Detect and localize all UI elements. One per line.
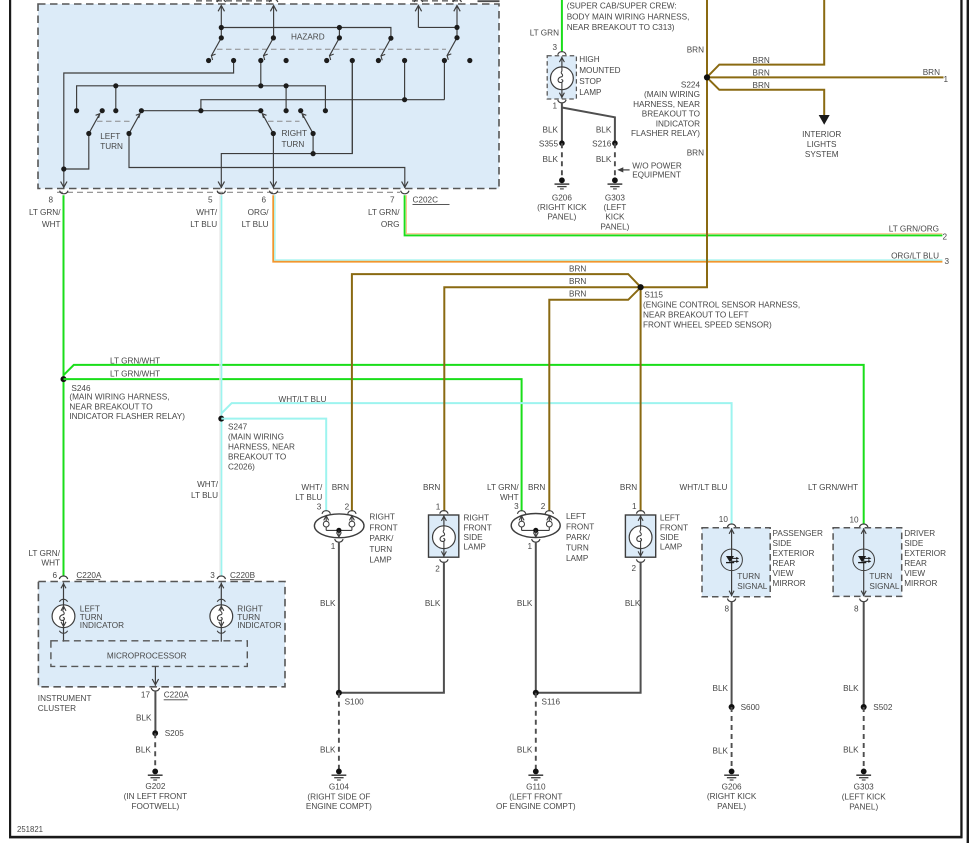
wire: contact 404.6 drop	[404, 61, 406, 100]
svg-text:S116: S116	[542, 697, 561, 706]
svg-text:STOP: STOP	[579, 77, 602, 86]
wire BLK dashed S100 to G104	[338, 693, 340, 770]
wire BLK dashed S205 to G202	[154, 733, 156, 770]
svg-text:BRN: BRN	[687, 149, 704, 158]
svg-text:TURN: TURN	[869, 572, 892, 581]
svg-text:6: 6	[261, 196, 266, 205]
svg-text:BLK: BLK	[596, 125, 612, 134]
switch top pin arrows	[218, 6, 224, 12]
wire LT GRN/WHT upper branch to driver mirror	[64, 365, 864, 524]
svg-text:LT GRN/: LT GRN/	[487, 483, 519, 492]
svg-text:C220A: C220A	[76, 571, 102, 580]
svg-text:S224: S224	[681, 80, 701, 89]
wire: pivot 313.1 to bus y=153.6	[312, 134, 314, 154]
svg-text:WHT/: WHT/	[301, 483, 323, 492]
wire WHT/LT BLU branch to right front park lamp	[221, 419, 326, 512]
splice S224	[704, 74, 710, 80]
svg-text:WHT/: WHT/	[197, 480, 219, 489]
wire BRN S224 main vertical and run to S115	[641, 0, 707, 287]
wire BRN from top into S224	[707, 0, 824, 77]
wire: top pin drops	[220, 6, 222, 38]
svg-text:LT GRN: LT GRN	[530, 29, 559, 38]
svg-text:NEAR BREAKOUT TO: NEAR BREAKOUT TO	[69, 402, 152, 411]
svg-text:PASSENGER: PASSENGER	[773, 529, 823, 538]
ground G110 (left front of engine compt)	[528, 769, 543, 781]
svg-text:NEAR BREAKOUT TO C313): NEAR BREAKOUT TO C313)	[567, 23, 675, 32]
svg-text:FRONT WHEEL SPEED SENSOR): FRONT WHEEL SPEED SENSOR)	[643, 321, 772, 330]
svg-text:2: 2	[541, 502, 546, 511]
svg-text:ORG/LT BLU: ORG/LT BLU	[891, 251, 939, 260]
svg-text:BLK: BLK	[136, 713, 152, 722]
svg-text:INDICATOR: INDICATOR	[80, 621, 124, 630]
svg-text:BRN: BRN	[753, 81, 770, 90]
cluster pin 17 C220A	[154, 666, 156, 685]
svg-text:6: 6	[52, 571, 57, 580]
left turn arm 2	[129, 114, 140, 134]
svg-text:LEFT: LEFT	[660, 514, 680, 523]
svg-text:S216: S216	[592, 139, 612, 148]
svg-text:1: 1	[331, 542, 336, 551]
svg-text:LEFT: LEFT	[100, 132, 120, 141]
wire WHT/LT BLU branch to passenger mirror	[221, 403, 731, 524]
svg-text:BRN: BRN	[332, 483, 349, 492]
svg-text:G202: G202	[145, 782, 165, 791]
svg-text:S502: S502	[873, 703, 893, 712]
wire LT GRN/WHT lower branch to left front park lamp	[64, 379, 522, 511]
svg-text:BLK: BLK	[543, 155, 559, 164]
svg-text:BRN: BRN	[423, 483, 440, 492]
left turn arm 1	[89, 114, 100, 134]
splice S116	[533, 690, 539, 696]
wire: pivot 273.4 to pin6	[272, 134, 274, 189]
svg-text:ORG: ORG	[381, 220, 400, 229]
svg-text:FRONT: FRONT	[660, 523, 688, 532]
svg-text:REAR: REAR	[773, 559, 796, 568]
svg-text:LAMP: LAMP	[464, 543, 487, 552]
svg-text:BLK: BLK	[713, 684, 729, 693]
left front side lamp	[625, 502, 688, 573]
ground G206 (right kick panel)	[555, 177, 570, 189]
svg-text:(IN LEFT FRONT: (IN LEFT FRONT	[124, 792, 188, 801]
wire: pivot 88.8 to pin8 node	[64, 134, 89, 170]
wire: bus y=110.7	[141, 110, 260, 112]
ground G303 (left kick panel) lower	[856, 769, 871, 781]
wire BRN S115 middle branch to right front side lamp	[444, 287, 640, 511]
svg-text:S600: S600	[741, 703, 761, 712]
svg-text:G104: G104	[329, 782, 349, 791]
connector C202C face line	[57, 191, 400, 193]
svg-text:RIGHT: RIGHT	[464, 514, 489, 523]
svg-text:NEAR BREAKOUT TO LEFT: NEAR BREAKOUT TO LEFT	[643, 311, 749, 320]
svg-text:(LEFT FRONT: (LEFT FRONT	[509, 792, 562, 801]
svg-text:EQUIPMENT: EQUIPMENT	[632, 171, 681, 180]
wire BRN S115 down to left front side lamp	[640, 287, 642, 511]
wire BLK right side lamp to S100	[339, 562, 444, 693]
wire LT GRN/ORG pin7	[405, 195, 943, 235]
svg-text:1: 1	[632, 502, 637, 511]
wire BRN S115 top branch to right front park lamp	[352, 274, 641, 511]
svg-text:1: 1	[436, 502, 441, 511]
svg-text:FRONT: FRONT	[369, 523, 397, 532]
svg-text:BLK: BLK	[517, 746, 533, 755]
svg-text:G303: G303	[854, 783, 874, 792]
svg-text:MIRROR: MIRROR	[773, 579, 806, 588]
splice S355	[559, 140, 565, 146]
svg-text:EXTERIOR: EXTERIOR	[773, 549, 815, 558]
driver side exterior rear view mirror	[808, 483, 946, 614]
svg-text:LAMP: LAMP	[579, 88, 602, 97]
wire BLK right park lamp to S100	[338, 542, 340, 693]
svg-text:(MAIN WIRING: (MAIN WIRING	[228, 432, 284, 441]
splice S246	[61, 376, 67, 382]
svg-text:PANEL): PANEL)	[547, 213, 576, 222]
microprocessor box	[51, 641, 247, 667]
right turn arm 1	[262, 114, 273, 134]
svg-text:HARNESS, NEAR: HARNESS, NEAR	[633, 100, 700, 109]
svg-text:S246: S246	[71, 384, 91, 393]
wire: contact 233.6 riser to pin8 drop	[64, 61, 234, 189]
wire: contact 444.4 drop to bus	[443, 61, 445, 100]
svg-text:BLK: BLK	[543, 125, 559, 134]
multifunction switch box	[38, 4, 499, 189]
splice S205	[152, 730, 158, 736]
right front side lamp	[429, 502, 492, 573]
svg-text:OF ENGINE COMPT): OF ENGINE COMPT)	[496, 802, 576, 811]
svg-text:BLK: BLK	[713, 746, 729, 755]
svg-text:W/O POWER: W/O POWER	[632, 162, 682, 171]
svg-text:2: 2	[345, 502, 350, 511]
svg-text:WHT/LT BLU: WHT/LT BLU	[279, 395, 327, 404]
wire BRN S224 to interior lights system	[707, 78, 824, 116]
svg-text:BODY MAIN WIRING HARNESS,: BODY MAIN WIRING HARNESS,	[567, 12, 690, 21]
svg-text:LT BLU: LT BLU	[295, 493, 322, 502]
svg-text:G110: G110	[526, 782, 546, 791]
svg-text:LAMP: LAMP	[566, 554, 589, 563]
svg-text:3: 3	[210, 571, 215, 580]
svg-text:C202C: C202C	[413, 196, 439, 205]
svg-text:CLUSTER: CLUSTER	[38, 704, 76, 713]
svg-text:S115: S115	[644, 291, 663, 300]
svg-text:LT GRN/WHT: LT GRN/WHT	[110, 357, 160, 366]
ground G202 (in left front footwell)	[148, 769, 163, 781]
wire BLK stop lamp to S355	[561, 102, 563, 143]
svg-text:RIGHT: RIGHT	[282, 129, 307, 138]
svg-text:LT BLU: LT BLU	[242, 220, 269, 229]
instrument cluster box	[38, 582, 285, 687]
wire BLK dashed S502 to G303	[863, 707, 865, 770]
W/O POWER EQUIPMENT callout	[617, 162, 682, 180]
svg-text:BRN: BRN	[687, 45, 704, 54]
high mounted stop lamp box	[547, 56, 576, 99]
svg-text:LT GRN/: LT GRN/	[29, 208, 61, 217]
svg-text:TURN: TURN	[369, 545, 392, 554]
svg-text:(RIGHT KICK: (RIGHT KICK	[537, 203, 587, 212]
wire: contact 260.8 drop	[260, 61, 262, 86]
wire WHT/LT BLU pin5 vertical	[219, 195, 221, 576]
cluster pin 6 C220A	[59, 576, 67, 579]
svg-text:BRN: BRN	[620, 483, 637, 492]
left turn indicator lamp	[52, 583, 124, 642]
wire BLK dashed S600 to G206	[731, 707, 733, 770]
svg-text:LT GRN/: LT GRN/	[28, 549, 60, 558]
splice S502	[861, 704, 867, 710]
svg-text:3: 3	[317, 502, 322, 511]
wire: bus y=153.6 pin5	[221, 61, 352, 189]
svg-text:BRN: BRN	[569, 277, 586, 286]
passenger side exterior rear view mirror	[679, 483, 822, 614]
svg-text:S100: S100	[345, 697, 365, 706]
svg-text:G206: G206	[722, 782, 742, 791]
svg-text:LT BLU: LT BLU	[191, 491, 218, 500]
splice S115	[638, 284, 644, 290]
pin 1 stop lamp	[558, 100, 566, 103]
svg-text:C220A: C220A	[164, 691, 190, 700]
svg-text:BRN: BRN	[569, 290, 586, 299]
connector C202C pin bumps	[60, 191, 68, 194]
svg-text:7: 7	[390, 196, 395, 205]
svg-text:LAMP: LAMP	[369, 556, 392, 565]
svg-text:WHT/LT BLU: WHT/LT BLU	[679, 483, 727, 492]
svg-text:TURN: TURN	[566, 543, 589, 552]
svg-text:INDICATOR: INDICATOR	[237, 621, 281, 630]
ground G206 (right kick panel) lower	[724, 769, 739, 781]
svg-text:MIRROR: MIRROR	[904, 579, 937, 588]
svg-text:8: 8	[48, 196, 53, 205]
svg-text:EXTERIOR: EXTERIOR	[904, 549, 946, 558]
svg-text:10: 10	[719, 515, 729, 524]
svg-text:LT GRN/: LT GRN/	[368, 208, 400, 217]
svg-text:SIDE: SIDE	[904, 539, 924, 548]
wire BLK cluster to S205	[154, 691, 156, 734]
svg-text:1: 1	[527, 542, 532, 551]
hazard arm 4	[381, 38, 391, 56]
wire: bus y=85.8	[77, 86, 326, 111]
svg-text:WHT: WHT	[500, 493, 519, 502]
svg-text:TURN: TURN	[282, 140, 305, 149]
ground G303 (left kick panel)	[608, 177, 623, 189]
svg-text:S205: S205	[165, 729, 185, 738]
svg-text:BLK: BLK	[843, 684, 859, 693]
svg-text:10: 10	[849, 515, 859, 524]
stop lamp bulb	[561, 57, 563, 99]
switch arm arrowheads	[96, 54, 452, 118]
svg-text:FRONT: FRONT	[464, 523, 492, 532]
svg-text:INDICATOR FLASHER RELAY): INDICATOR FLASHER RELAY)	[69, 412, 185, 421]
left turn dashed position line	[97, 120, 131, 122]
wire: bus y=99.7	[201, 100, 445, 111]
page border right outer	[967, 0, 969, 843]
svg-text:BRN: BRN	[923, 68, 940, 77]
cluster pin 3 C220B	[217, 576, 225, 579]
svg-text:C2026): C2026)	[228, 462, 255, 471]
svg-text:(ENGINE CONTROL SENSOR HARNESS: (ENGINE CONTROL SENSOR HARNESS,	[643, 300, 800, 309]
svg-text:LIGHTS: LIGHTS	[807, 140, 837, 149]
svg-text:BLK: BLK	[425, 599, 441, 608]
hazard switch dashed position line	[217, 48, 446, 50]
right turn arm 2	[302, 114, 313, 134]
svg-text:BREAKOUT TO: BREAKOUT TO	[228, 452, 286, 461]
svg-text:PANEL): PANEL)	[717, 802, 746, 811]
svg-text:BLK: BLK	[135, 745, 151, 754]
svg-text:PARK/: PARK/	[566, 533, 591, 542]
right turn dashed position line	[268, 120, 300, 122]
hazard arm 3	[330, 38, 340, 56]
svg-text:17: 17	[141, 691, 151, 700]
pin 3 stop lamp	[558, 52, 566, 55]
svg-text:BREAKOUT TO: BREAKOUT TO	[642, 110, 700, 119]
svg-text:HAZARD: HAZARD	[291, 32, 325, 41]
svg-text:SIDE: SIDE	[464, 533, 484, 542]
svg-text:SIGNAL: SIGNAL	[737, 582, 767, 591]
wire BRN S115 bottom branch to left front park lamp	[549, 287, 640, 511]
wire BLK dashed S216 to G303	[614, 143, 616, 179]
svg-text:HARNESS, NEAR: HARNESS, NEAR	[228, 443, 295, 452]
svg-text:SYSTEM: SYSTEM	[805, 150, 839, 159]
svg-text:BLK: BLK	[596, 155, 612, 164]
svg-text:BRN: BRN	[753, 56, 770, 65]
switch junction dots	[61, 25, 472, 172]
svg-text:DRIVER: DRIVER	[904, 529, 935, 538]
switch bottom pin arrows	[61, 182, 67, 188]
svg-text:S247: S247	[228, 422, 248, 431]
svg-text:(MAIN WIRING: (MAIN WIRING	[644, 90, 700, 99]
svg-text:BLK: BLK	[625, 599, 641, 608]
svg-text:S355: S355	[539, 139, 559, 148]
splice S247	[218, 416, 224, 422]
wire ORG/LT BLU pin6	[273, 195, 942, 262]
svg-text:MOUNTED: MOUNTED	[579, 66, 620, 75]
wire BLK left side lamp to S116	[536, 562, 641, 693]
svg-text:3: 3	[514, 502, 519, 511]
wire BLK branch to S216	[562, 108, 615, 144]
svg-text:SIDE: SIDE	[773, 539, 793, 548]
svg-text:5: 5	[208, 196, 213, 205]
svg-text:251821: 251821	[17, 825, 43, 834]
svg-text:ORG/: ORG/	[248, 208, 270, 217]
svg-text:G206: G206	[552, 194, 572, 203]
page border right inner	[960, 0, 962, 838]
svg-text:(MAIN WIRING HARNESS,: (MAIN WIRING HARNESS,	[69, 393, 169, 402]
wire: hazard feed bus y=27.5	[221, 28, 391, 39]
wire BLK passenger mirror to S600	[731, 601, 733, 707]
svg-text:HIGH: HIGH	[579, 55, 600, 64]
svg-text:MICROPROCESSOR: MICROPROCESSOR	[107, 651, 187, 660]
svg-text:(RIGHT SIDE OF: (RIGHT SIDE OF	[307, 792, 370, 801]
wire: pivot 129 to pin7 run y=167.5	[129, 134, 405, 189]
ground G104 (right side of engine compt)	[332, 769, 347, 781]
hazard arm 2	[264, 38, 274, 56]
svg-text:FOOTWELL): FOOTWELL)	[132, 802, 180, 811]
svg-text:BRN: BRN	[528, 483, 545, 492]
svg-text:BLK: BLK	[843, 745, 859, 754]
svg-text:1: 1	[552, 101, 557, 110]
svg-text:C220B: C220B	[230, 571, 256, 580]
svg-text:(LEFT: (LEFT	[604, 203, 627, 212]
splice S100	[336, 690, 342, 696]
svg-text:TURN: TURN	[100, 142, 123, 151]
svg-text:LT GRN/WHT: LT GRN/WHT	[808, 483, 858, 492]
svg-text:INTERIOR: INTERIOR	[802, 130, 841, 139]
svg-text:BRN: BRN	[569, 265, 586, 274]
svg-text:WHT: WHT	[42, 220, 61, 229]
right front park/turn lamp	[295, 483, 397, 565]
interior lights system arrow	[819, 115, 830, 125]
svg-text:8: 8	[854, 604, 859, 613]
wire BLK dashed S116 to G110	[535, 693, 537, 770]
svg-text:LAMP: LAMP	[660, 543, 683, 552]
page border left	[9, 0, 11, 838]
svg-text:PANEL): PANEL)	[849, 802, 878, 811]
wire LT GRN to stop lamp	[561, 0, 563, 52]
svg-text:BRN: BRN	[753, 69, 770, 78]
svg-text:RIGHT: RIGHT	[369, 513, 394, 522]
svg-text:REAR: REAR	[904, 559, 927, 568]
svg-text:VIEW: VIEW	[773, 569, 794, 578]
svg-text:FRONT: FRONT	[566, 522, 594, 531]
svg-text:LT GRN/ORG: LT GRN/ORG	[889, 225, 939, 234]
svg-text:INSTRUMENT: INSTRUMENT	[38, 694, 92, 703]
svg-text:(RIGHT KICK: (RIGHT KICK	[707, 792, 757, 801]
svg-text:2: 2	[632, 564, 637, 573]
svg-text:(SUPER CAB/SUPER CREW:: (SUPER CAB/SUPER CREW:	[567, 2, 677, 11]
svg-text:(LEFT KICK: (LEFT KICK	[842, 792, 887, 801]
svg-text:BLK: BLK	[517, 599, 533, 608]
wire LT GRN/WHT pin8 vertical	[63, 195, 65, 576]
svg-text:BLK: BLK	[320, 599, 336, 608]
page border bottom	[9, 836, 963, 839]
svg-text:WHT: WHT	[41, 559, 60, 568]
svg-text:2: 2	[435, 565, 440, 574]
splice S216	[612, 140, 618, 146]
right turn indicator lamp	[210, 583, 282, 642]
svg-text:BLK: BLK	[320, 746, 336, 755]
wire: contact 352.3 drop	[351, 61, 353, 154]
wire BRN S224 to right edge connector 1	[707, 76, 944, 78]
svg-text:INDICATOR: INDICATOR	[656, 119, 700, 128]
hazard arm 5	[447, 38, 457, 56]
svg-text:SIGNAL: SIGNAL	[869, 582, 899, 591]
svg-text:1: 1	[944, 75, 949, 84]
svg-text:LEFT: LEFT	[566, 512, 586, 521]
wire BLK left park lamp to S116	[535, 542, 537, 693]
switch internal wiring	[64, 6, 457, 188]
svg-text:WHT/: WHT/	[196, 208, 218, 217]
svg-text:KICK: KICK	[605, 213, 625, 222]
connector C202C top fragments	[196, 0, 500, 2]
svg-text:SIDE: SIDE	[660, 533, 680, 542]
svg-text:ENGINE COMPT): ENGINE COMPT)	[306, 802, 372, 811]
left front park/turn lamp	[487, 483, 594, 563]
svg-text:3: 3	[552, 43, 557, 52]
svg-text:PARK/: PARK/	[369, 534, 394, 543]
svg-text:FLASHER RELAY): FLASHER RELAY)	[631, 129, 700, 138]
svg-text:2: 2	[943, 232, 948, 241]
svg-text:TURN: TURN	[737, 572, 760, 581]
svg-text:3: 3	[945, 257, 950, 266]
hazard arm 1	[211, 38, 221, 56]
svg-text:8: 8	[724, 604, 729, 613]
splice S600	[729, 704, 735, 710]
svg-text:VIEW: VIEW	[904, 569, 925, 578]
svg-text:LT BLU: LT BLU	[190, 220, 217, 229]
svg-text:LT GRN/WHT: LT GRN/WHT	[110, 369, 160, 378]
svg-text:PANEL): PANEL)	[600, 222, 629, 231]
wire BLK driver mirror to S502	[863, 601, 865, 707]
svg-text:G303: G303	[605, 194, 625, 203]
wire BLK dashed S355 to G206	[561, 143, 563, 179]
